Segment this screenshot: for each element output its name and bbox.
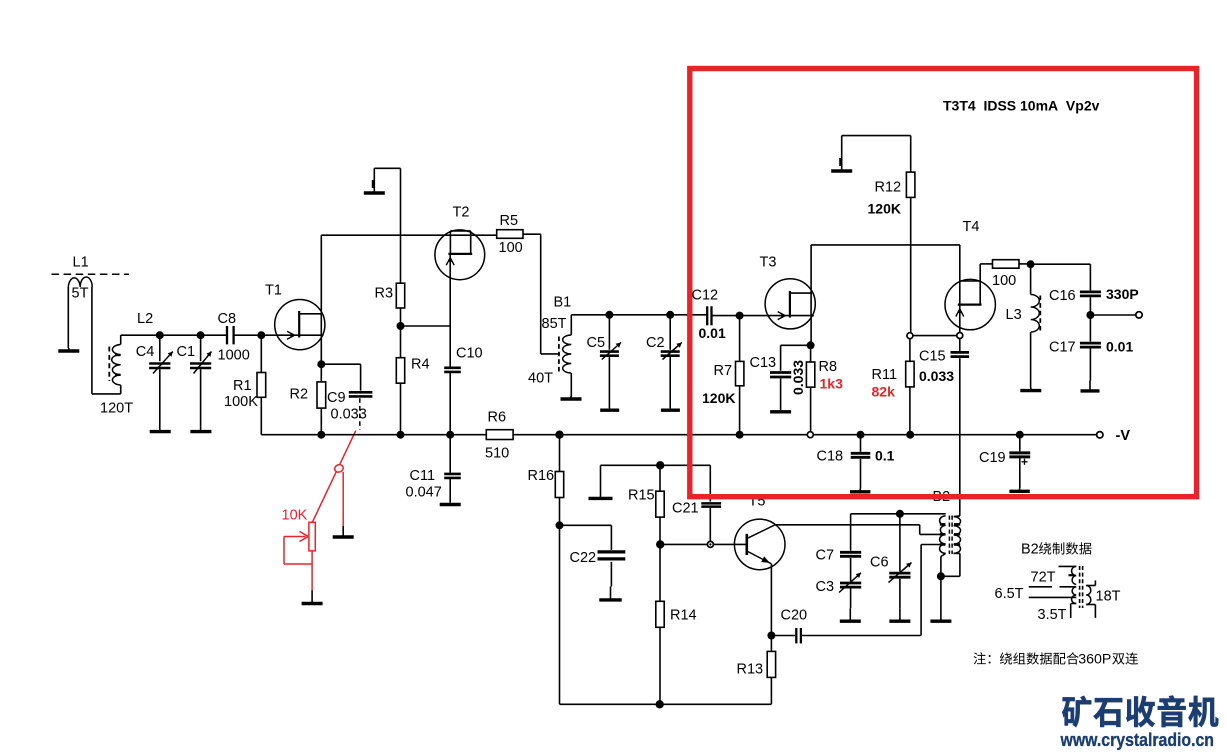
wire red diagonal to pot: [312, 431, 356, 523]
label C20: [781, 608, 808, 624]
label C17: [1049, 340, 1076, 356]
svg-text:6.5T: 6.5T: [995, 586, 1024, 602]
node dot R15 bottom: [656, 540, 664, 548]
label 6.5T: [995, 586, 1024, 602]
svg-text:10K: 10K: [282, 508, 308, 524]
wire R3R4 node to T2 line: [401, 325, 451, 327]
wire R15 top to C21: [660, 465, 710, 501]
resistor R7: [736, 316, 744, 435]
svg-text:C13: C13: [750, 355, 777, 371]
label C12: [692, 288, 719, 304]
ground under C3: [840, 608, 861, 621]
variable capacitor C1: [190, 335, 212, 430]
resistor R14: [656, 544, 664, 704]
capacitor C20 series: [771, 628, 921, 643]
highlight box T3T4 stage: [690, 69, 1197, 497]
variable capacitor C2: [661, 315, 682, 409]
label L3: [1006, 307, 1022, 323]
svg-text:1000: 1000: [218, 348, 250, 364]
node dot C16/C17: [1086, 311, 1094, 319]
label B2: [933, 489, 951, 505]
svg-text:R12: R12: [875, 180, 902, 196]
svg-text:L2: L2: [137, 311, 153, 327]
svg-text:C10: C10: [456, 346, 483, 362]
wire red ring to ground: [342, 472, 344, 526]
label R2: [290, 387, 309, 403]
resistor R12: [906, 172, 915, 333]
node dot C2: [666, 311, 674, 319]
mini transformer 72T winding: [1059, 566, 1077, 584]
wire R5 to B1 tap: [541, 234, 560, 354]
label T3: [760, 255, 777, 271]
inductor L3: [1031, 264, 1041, 387]
svg-text:C18: C18: [817, 449, 844, 465]
variable capacitor C3: [839, 558, 861, 608]
label 82k: [872, 384, 896, 400]
node dot R7 top: [736, 312, 744, 320]
wire B2 bottom link: [941, 575, 960, 577]
wire T5 base: [660, 543, 746, 545]
label C10: [456, 346, 483, 362]
node dot C6 top: [896, 510, 904, 518]
label C19: [979, 450, 1006, 466]
label 1000: [218, 348, 250, 364]
resistor R-100 T4 drain: [980, 260, 1030, 269]
label C16: [1049, 288, 1076, 304]
svg-text:R6: R6: [488, 410, 507, 426]
svg-text:C1: C1: [177, 344, 196, 360]
ground under C18: [850, 489, 870, 492]
label T5: [749, 494, 766, 510]
capacitor C9: [321, 364, 372, 396]
resistor R4: [396, 326, 404, 435]
svg-text:0.01: 0.01: [699, 325, 726, 341]
ground top right: [831, 136, 852, 171]
label 0.047: [406, 485, 442, 501]
label 72T: [1031, 570, 1056, 586]
wire C20 to B2 tap: [921, 545, 941, 636]
wire R15 top to ground: [601, 464, 661, 466]
svg-text:R7: R7: [714, 363, 733, 379]
transistor T3 JFET: [765, 245, 815, 345]
wire R12 top: [842, 136, 911, 173]
label 100 R5: [499, 240, 523, 256]
ground below red ring: [333, 526, 354, 537]
svg-text:R16: R16: [528, 468, 555, 484]
svg-text:100K: 100K: [224, 394, 258, 410]
node dot emitter R13: [767, 632, 775, 640]
capacitor C11: [444, 435, 461, 503]
svg-text:C19: C19: [979, 450, 1006, 466]
label C2: [646, 335, 665, 351]
svg-text:5T: 5T: [72, 286, 89, 302]
resistor R8: [806, 345, 814, 431]
label C11: [410, 468, 436, 484]
svg-text:B1: B1: [554, 295, 572, 311]
transistor T1 JFET: [275, 235, 325, 364]
wire T1 drain to R5 bus y=235: [321, 234, 496, 236]
svg-text:C5: C5: [587, 335, 606, 351]
label R14: [670, 608, 697, 624]
logo url www.crystalradio.cn: [1060, 729, 1214, 750]
label B1: [554, 295, 572, 311]
resistor R5: [497, 230, 541, 239]
label 100K: [224, 394, 258, 410]
junction ring R8 bottom: [807, 432, 813, 438]
label R5: [500, 213, 519, 229]
ground below potentiometer: [302, 590, 323, 603]
wire R3 column top: [400, 168, 402, 283]
svg-text:C6: C6: [870, 555, 889, 571]
node dot bottom R14: [656, 700, 664, 708]
node dot R16 bottom: [556, 521, 564, 529]
label L1: [73, 255, 89, 271]
label C8: [218, 311, 237, 327]
svg-text:R8: R8: [819, 359, 838, 375]
label -V: [1116, 428, 1131, 444]
wire main input bus y=335: [121, 334, 300, 336]
svg-text:510: 510: [485, 446, 509, 462]
svg-text:C2: C2: [646, 335, 665, 351]
capacitor C13: [770, 345, 811, 409]
label 0.01 C17: [1106, 339, 1133, 355]
variable capacitor C5: [600, 315, 621, 409]
label R11: [872, 367, 898, 383]
mini transformer 6.5T winding: [1029, 587, 1077, 604]
label 3.5T: [1038, 607, 1067, 623]
ground under C4: [150, 430, 171, 432]
ground under C19: [1009, 488, 1029, 491]
label R8: [819, 359, 838, 375]
ground under B2: [930, 576, 951, 621]
label 10K: [282, 508, 308, 524]
resistor R3: [396, 283, 404, 326]
svg-text:0.1: 0.1: [875, 448, 895, 464]
svg-text:72T: 72T: [1031, 570, 1056, 586]
label C15: [919, 349, 946, 365]
label C4: [136, 344, 155, 360]
label 100 T4: [992, 273, 1016, 289]
label 510: [485, 446, 509, 462]
node dot C1: [197, 331, 205, 339]
svg-text:R15: R15: [628, 488, 655, 504]
resistor R6: [486, 430, 513, 440]
svg-text:C12: C12: [692, 288, 719, 304]
wire gate rail T3 to T4: [811, 244, 960, 246]
node dot rail R4: [397, 431, 405, 439]
inductor L2: [109, 335, 120, 394]
label R1: [233, 378, 252, 394]
label 0.033 C15: [919, 368, 954, 384]
svg-text:R11: R11: [872, 367, 898, 383]
svg-text:C20: C20: [781, 608, 808, 624]
label C9: [327, 390, 346, 406]
label 0.033 C13 rotated: [790, 360, 806, 395]
logo crystalradio: [1062, 696, 1218, 727]
resistor R16: [555, 435, 563, 526]
ground under L3: [1020, 388, 1041, 391]
svg-text:-V: -V: [1116, 428, 1131, 444]
label 1k3: [820, 376, 844, 392]
svg-text:100: 100: [992, 273, 1016, 289]
label C6: [870, 555, 889, 571]
capacitor C21: [701, 503, 721, 541]
node dot R3/R4: [397, 322, 405, 330]
label R3: [375, 286, 394, 302]
label 0.01 C12: [699, 325, 726, 341]
node dot C5: [605, 311, 613, 319]
node dot rail C18: [857, 431, 865, 439]
svg-text:C21: C21: [672, 501, 699, 517]
label B2 winding data title: [1021, 542, 1092, 558]
label T1: [265, 283, 282, 299]
terminal output ring: [1136, 312, 1142, 318]
label R13: [737, 662, 764, 678]
variable capacitor C6: [889, 514, 912, 608]
node dot rail C19: [1016, 431, 1024, 439]
svg-text:R1: R1: [233, 378, 252, 394]
node dot rail R11: [906, 431, 914, 439]
svg-text:0.033: 0.033: [331, 407, 367, 423]
svg-text:18T: 18T: [1096, 589, 1121, 605]
svg-text:C22: C22: [570, 550, 597, 566]
svg-text:0.01: 0.01: [1106, 339, 1133, 355]
transistor T5 BJT: [734, 519, 785, 570]
svg-text:C8: C8: [218, 311, 237, 327]
svg-text:L3: L3: [1006, 307, 1022, 323]
transistor T4 JFET: [945, 245, 995, 333]
label T2: [453, 205, 470, 221]
capacitor C16: [1080, 292, 1101, 315]
wire bottom return: [560, 703, 772, 705]
capacitor C18: [851, 435, 871, 489]
svg-text:120K: 120K: [702, 390, 735, 406]
svg-text:R3: R3: [375, 286, 394, 302]
svg-text:C9: C9: [327, 390, 346, 406]
label R4: [411, 357, 430, 373]
junction ring C21 base: [707, 541, 713, 547]
svg-text:T2: T2: [453, 205, 470, 221]
variable capacitor C4: [149, 335, 173, 430]
node dot R15 top: [656, 461, 664, 469]
junction ring T4 source: [957, 333, 963, 339]
capacitor C17: [1080, 315, 1101, 381]
node dot T1 gate / R1: [257, 331, 265, 339]
node dot rail R16: [555, 431, 563, 439]
svg-text:360P: 360P: [1078, 652, 1111, 668]
svg-text:C3: C3: [816, 579, 835, 595]
capacitor C22: [560, 525, 626, 586]
label R12: [875, 180, 902, 196]
wire output stub: [1090, 314, 1135, 316]
svg-text:82k: 82k: [872, 384, 896, 400]
potentiometer 10K: [284, 522, 315, 590]
capacitor C15: [951, 339, 970, 357]
junction ring R11 top: [907, 333, 913, 339]
ground under L1: [58, 348, 79, 351]
label 18T: [1096, 589, 1121, 605]
wire L1 right lead: [92, 287, 121, 394]
svg-text:R4: R4: [411, 357, 430, 373]
svg-text:40T: 40T: [528, 371, 553, 387]
label 0.033 C9: [331, 407, 367, 423]
label C5: [587, 335, 606, 351]
label C18: [817, 449, 844, 465]
wire C7 top bus: [851, 513, 946, 515]
svg-text:R5: R5: [500, 213, 519, 229]
resistor R2: [317, 364, 326, 435]
resistor R11: [906, 339, 914, 435]
mini transformer 18T winding: [1086, 580, 1095, 618]
capacitor C10: [444, 368, 461, 435]
resistor R13: [767, 636, 775, 705]
svg-text:T3: T3: [760, 255, 777, 271]
label R15: [628, 488, 655, 504]
terminal -V ring: [1097, 432, 1103, 438]
wire R11 to T4 source: [913, 335, 957, 337]
transformer B2 secondary: [954, 516, 961, 576]
ground under C6: [889, 608, 910, 621]
wire dashed C9 to pot: [359, 398, 361, 429]
ground under B1: [561, 396, 582, 399]
wire -V rail: [261, 434, 1096, 436]
label 0.1: [875, 448, 895, 464]
label C7: [816, 548, 835, 564]
antenna dashed line above L1: [52, 273, 130, 275]
node dot L3 top: [1027, 260, 1035, 268]
antenna coil L1: [68, 277, 92, 348]
ground under C11: [440, 502, 461, 504]
label 120T: [100, 401, 133, 417]
capacitor C19 electrolytic: [1009, 435, 1030, 489]
label 120K R12: [868, 201, 901, 217]
node dot T3 source: [807, 341, 815, 349]
note winding text: [974, 652, 1138, 668]
terminal red ring: [334, 464, 345, 474]
svg-text:85T: 85T: [542, 316, 567, 332]
svg-text:C4: C4: [136, 344, 155, 360]
svg-text:C16: C16: [1049, 288, 1076, 304]
label R16: [528, 468, 555, 484]
capacitor C12 series: [707, 306, 739, 325]
svg-text:1k3: 1k3: [820, 376, 844, 392]
label T4: [963, 219, 980, 235]
label C13: [750, 355, 777, 371]
svg-text:0.033: 0.033: [790, 360, 806, 395]
node dot T1 source: [317, 360, 325, 368]
ground under C2: [661, 408, 680, 410]
label C1: [177, 344, 196, 360]
label C21: [672, 501, 699, 517]
svg-text:330P: 330P: [1106, 286, 1139, 302]
node dot rail R1: [317, 431, 325, 439]
label C3: [816, 579, 835, 595]
capacitor C7: [840, 514, 861, 557]
transistor T2 JFET: [435, 230, 485, 367]
svg-text:C15: C15: [919, 349, 946, 365]
node dot rail R7: [736, 431, 744, 439]
mini transformer lead 3.5T: [1029, 597, 1077, 618]
wire B1 top bus: [571, 314, 707, 316]
ground under C17: [1081, 381, 1100, 391]
wire R16 node down: [559, 525, 561, 704]
capacitor C8 series: [227, 326, 234, 344]
ground under C5: [600, 408, 619, 410]
svg-text:R13: R13: [737, 662, 764, 678]
label 40T: [528, 371, 553, 387]
transformer B2 core: [949, 516, 952, 555]
svg-text:120K: 120K: [868, 201, 901, 217]
node dot C10 rail: [446, 431, 454, 439]
svg-text:C17: C17: [1049, 340, 1076, 356]
svg-text:100: 100: [499, 240, 523, 256]
label 85T: [542, 316, 567, 332]
svg-text:0.033: 0.033: [919, 368, 954, 384]
resistor R15: [656, 465, 664, 544]
label 5T: [72, 286, 89, 302]
label L2: [137, 311, 153, 327]
wire L3 node to C16: [1031, 264, 1091, 290]
transformer B2 primary: [940, 516, 946, 573]
svg-text:C11: C11: [410, 468, 436, 484]
svg-text:T4: T4: [963, 219, 980, 235]
svg-text:R14: R14: [670, 608, 697, 624]
svg-text:www.crystalradio.cn: www.crystalradio.cn: [1060, 729, 1214, 750]
svg-text:0.047: 0.047: [406, 485, 442, 501]
svg-text:120T: 120T: [100, 401, 133, 417]
label C22: [570, 550, 597, 566]
wire T5 emitter down: [770, 564, 772, 636]
svg-text:C7: C7: [816, 548, 835, 564]
svg-text:L1: L1: [73, 255, 89, 271]
svg-text:B2: B2: [1021, 542, 1039, 558]
ground left of R15: [589, 465, 613, 498]
ground under C13: [770, 409, 791, 412]
node dot L2/C4: [156, 331, 164, 339]
label 120K R7: [702, 390, 735, 406]
svg-text:3.5T: 3.5T: [1038, 607, 1067, 623]
wire C15 to B2: [959, 358, 961, 516]
ground under C1: [190, 430, 211, 432]
mini transformer core: [1080, 566, 1083, 608]
label R7: [714, 363, 733, 379]
label 330P: [1106, 286, 1139, 302]
ground under C22: [599, 587, 621, 600]
svg-text:T1: T1: [265, 283, 282, 299]
ground top middle: [364, 168, 401, 193]
label R6: [488, 410, 507, 426]
wire C12 node to T3 gate: [740, 315, 790, 317]
svg-text:R2: R2: [290, 387, 309, 403]
node dot B2 bottom: [937, 572, 945, 580]
svg-text:T3T4 IDSS 10mA Vp2v: T3T4 IDSS 10mA Vp2v: [943, 98, 1100, 114]
resistor R1: [257, 335, 266, 435]
transformer B1 winding: [559, 315, 571, 397]
wire T5 collector to B2: [775, 525, 941, 535]
label T3T4 IDSS: [943, 98, 1100, 114]
